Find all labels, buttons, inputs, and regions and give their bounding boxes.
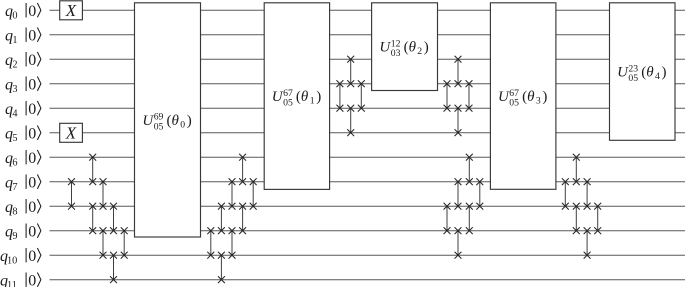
svg-text:θ: θ: [646, 65, 654, 81]
wire q8: [50, 205, 685, 207]
swap gate q6-q7 at x=92.7: [89, 154, 96, 185]
svg-text:X: X: [65, 1, 77, 20]
label q8 ket: [5, 199, 41, 218]
svg-text:X: X: [65, 124, 77, 143]
swap gate q7-q8 at x=479.8: [476, 178, 483, 209]
wire q2: [50, 58, 685, 60]
svg-text:05: 05: [154, 122, 164, 133]
swap gate q8-q9 at x=242.6: [239, 203, 246, 234]
svg-text:0: 0: [28, 125, 36, 142]
label q4 ket: [5, 101, 41, 120]
swap gate q8-q9 at x=447.0: [444, 203, 451, 234]
svg-text:): ): [187, 113, 192, 129]
swap gate q7-q8 at x=458.0: [455, 178, 462, 209]
svg-text:0: 0: [180, 119, 185, 130]
label q3 ket: [5, 76, 41, 95]
swap gate q6-q7 at x=469.3: [466, 154, 473, 185]
svg-text:4: 4: [12, 109, 17, 120]
swap gate q2-q3 at x=350.7: [347, 56, 354, 87]
swap gate q2-q3 at x=458.0: [455, 56, 462, 87]
svg-text:): ): [542, 89, 547, 105]
unitary box U2: U_05^67(theta_1): [264, 3, 329, 190]
label q11 ket: [0, 272, 41, 287]
wire q9: [50, 230, 685, 232]
swap gate q8-q9 at x=469.3: [466, 203, 473, 234]
svg-text:3: 3: [536, 96, 541, 107]
swap gate q10-q11 at x=221.4: [218, 252, 225, 283]
swap gate q9-q10 at x=232.0: [229, 227, 236, 258]
swap gate q9-q10 at x=587.1: [584, 227, 591, 258]
svg-text:3: 3: [12, 84, 17, 95]
swap gate q7-q8 at x=587.1: [584, 178, 591, 209]
svg-text:9: 9: [12, 231, 17, 242]
swap gate q10-q11 at x=113.5: [110, 252, 117, 283]
X gate on q5: [60, 123, 83, 142]
svg-text:0: 0: [28, 272, 36, 287]
svg-text:03: 03: [391, 48, 401, 59]
svg-text:1: 1: [310, 96, 315, 107]
swap gate q7-q8 at x=232.0: [229, 178, 236, 209]
wire q1: [50, 34, 685, 36]
svg-text:4: 4: [655, 71, 660, 82]
swap gate q8-q9 at x=113.5: [110, 203, 117, 234]
svg-text:U: U: [379, 40, 391, 56]
swap gate q4-q5 at x=350.7: [347, 105, 354, 136]
svg-text:0: 0: [28, 223, 36, 240]
label q10 ket: [0, 248, 41, 267]
svg-text:0: 0: [28, 248, 36, 265]
label q7 ket: [5, 174, 41, 193]
svg-text:θ: θ: [172, 113, 180, 129]
svg-text:0: 0: [28, 174, 36, 191]
unitary box U5: U_05^23(theta_4): [610, 3, 676, 141]
svg-text:0: 0: [28, 101, 36, 118]
swap gate q3-q4 at x=361.3: [358, 80, 365, 111]
wire q7: [50, 181, 685, 183]
label q6 ket: [5, 150, 41, 169]
svg-text:0: 0: [28, 3, 36, 20]
wire q3: [50, 83, 685, 85]
svg-text:U: U: [142, 113, 154, 129]
svg-text:0: 0: [28, 76, 36, 93]
svg-text:1: 1: [12, 35, 17, 46]
swap gate q9-q10 at x=124.2: [121, 227, 128, 258]
svg-text:05: 05: [509, 98, 519, 109]
svg-text:0: 0: [28, 52, 36, 69]
swap gate q8-q9 at x=92.7: [89, 203, 96, 234]
svg-text:10: 10: [7, 256, 17, 267]
swap gate q3-q4 at x=339.9: [336, 80, 343, 111]
unitary box U1: U_05^69(theta_0): [135, 3, 201, 237]
svg-text:6: 6: [12, 158, 17, 169]
swap gate q9-q10 at x=210.8: [207, 227, 214, 258]
svg-text:2: 2: [12, 60, 17, 71]
swap gate q7-q8 at x=253.2: [250, 178, 257, 209]
svg-text:2: 2: [417, 46, 422, 57]
svg-text:θ: θ: [301, 89, 309, 105]
swap gate q3-q4 at x=469.0: [466, 80, 473, 111]
label q2 ket: [5, 52, 41, 71]
svg-text:U: U: [498, 89, 510, 105]
svg-text:0: 0: [28, 150, 36, 167]
swap gate q6-q7 at x=242.6: [239, 154, 246, 185]
svg-text:05: 05: [283, 98, 293, 109]
swap gate q3-q4 at x=447.0: [444, 80, 451, 111]
svg-text:8: 8: [12, 207, 17, 218]
label q0 ket: [5, 3, 41, 22]
wire q0: [50, 9, 685, 11]
svg-text:θ: θ: [409, 40, 417, 56]
svg-text:7: 7: [12, 182, 17, 193]
svg-text:θ: θ: [527, 89, 535, 105]
X gate on q0: [60, 1, 83, 20]
svg-text:05: 05: [628, 73, 638, 84]
swap gate q8-q9 at x=576.3: [573, 203, 580, 234]
swap gate q8-q9 at x=597.7: [594, 203, 601, 234]
svg-text:U: U: [617, 65, 629, 81]
swap gate q4-q5 at x=458.0: [455, 105, 462, 136]
label q9 ket: [5, 223, 41, 242]
svg-text:0: 0: [28, 27, 36, 44]
wire q4: [50, 107, 685, 109]
swap gate q7-q8 at x=565.3: [562, 178, 569, 209]
svg-text:0: 0: [12, 11, 17, 22]
swap gate q6-q7 at x=576.3: [573, 154, 580, 185]
svg-text:0: 0: [28, 199, 36, 216]
swap gate q9-q10 at x=103.0: [100, 227, 107, 258]
svg-text:5: 5: [12, 133, 17, 144]
swap gate q8-q9 at x=221.4: [218, 203, 225, 234]
wire q10: [50, 254, 685, 256]
swap gate q9-q10 at x=458.0: [455, 227, 462, 258]
wire q6: [50, 156, 685, 158]
swap gate q7-q8 at x=103.0: [100, 178, 107, 209]
label q5 ket: [5, 125, 41, 144]
wire q5: [50, 132, 685, 134]
svg-text:): ): [662, 65, 667, 81]
unitary box U4: U_05^67(theta_3): [490, 3, 556, 190]
unitary box U3: U_03^12(theta_2): [372, 3, 438, 91]
swap gate q7-q8 at x=71.5: [68, 178, 75, 209]
svg-text:): ): [316, 89, 321, 105]
svg-text:): ): [424, 40, 429, 56]
wire q11: [50, 279, 685, 281]
svg-text:11: 11: [7, 280, 17, 287]
label q1 ket: [5, 27, 41, 46]
svg-text:U: U: [272, 89, 284, 105]
